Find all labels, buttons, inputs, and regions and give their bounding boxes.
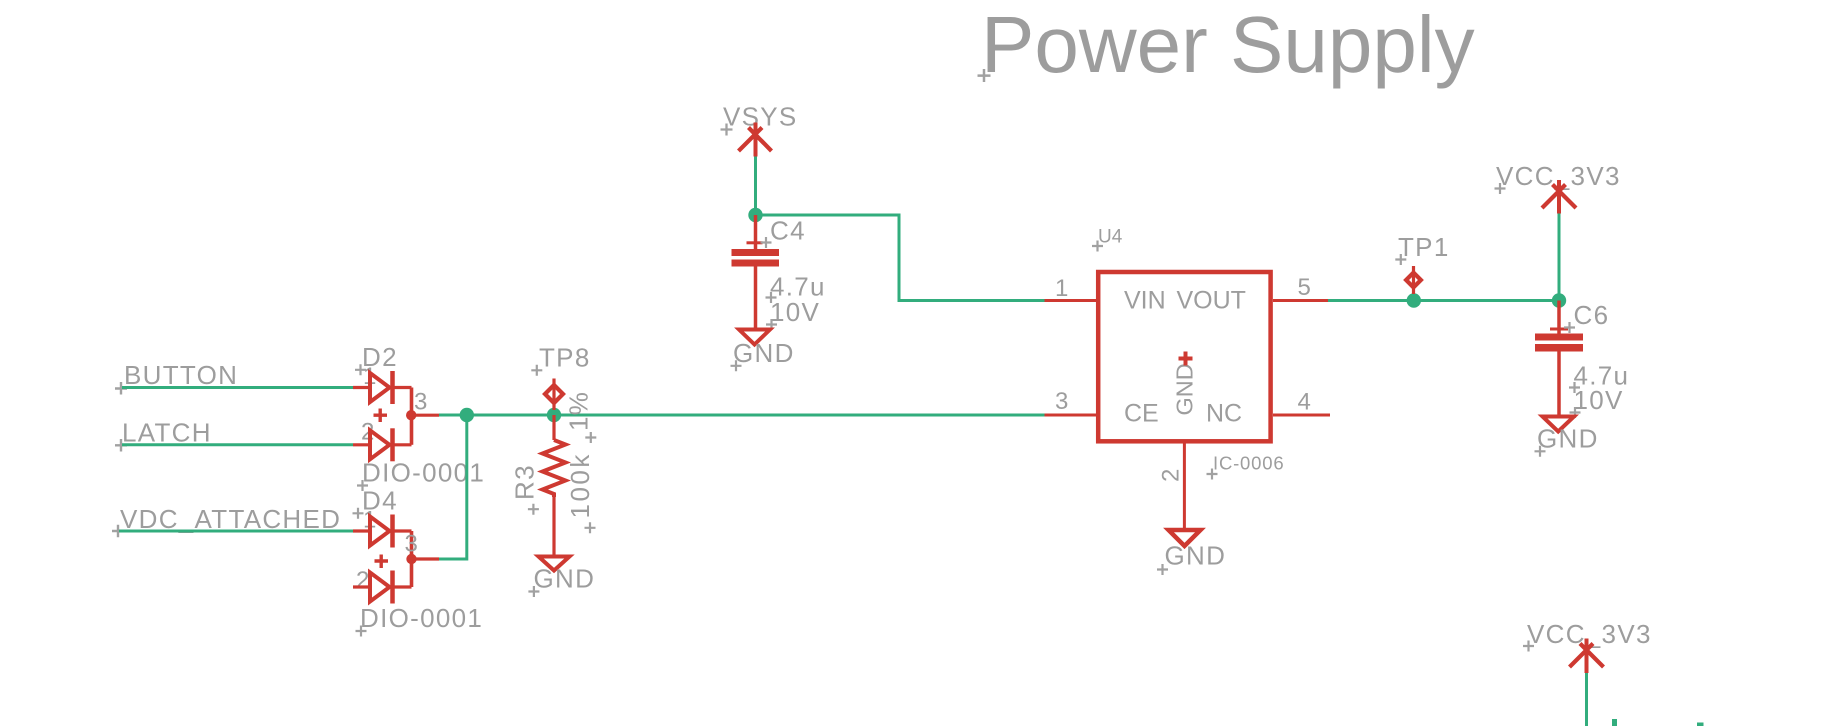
wire VCC_3V3 bottom to edge — [1585, 673, 1588, 726]
test point TP1 — [1395, 232, 1449, 294]
svg-text:Power Supply: Power Supply — [981, 0, 1475, 89]
junction node D4 cathodes — [406, 554, 416, 564]
svg-text:2: 2 — [356, 567, 369, 594]
wire LATCH to D2 pin 2 — [122, 443, 353, 446]
wire fragment at bottom edge (right) — [1697, 723, 1704, 726]
svg-text:C6: C6 — [1574, 300, 1610, 330]
value 4.7u (C4) — [766, 272, 826, 304]
svg-text:CE: CE — [1124, 400, 1159, 428]
value 10V (C4) — [766, 297, 820, 330]
svg-text:1: 1 — [1055, 275, 1068, 302]
label DIO-0001 (D4) — [356, 603, 484, 637]
power symbol VSYS — [721, 102, 798, 157]
svg-text:D4: D4 — [362, 486, 398, 516]
value 4.7u (C6) — [1569, 361, 1629, 394]
svg-text:3: 3 — [1055, 388, 1068, 415]
wire branch down to D4 node — [439, 415, 467, 559]
junction node D2 cathodes — [406, 410, 416, 420]
ground GND below C4 — [731, 330, 795, 372]
wire VCC_3V3 to junction — [1558, 214, 1561, 301]
label C4 — [761, 216, 806, 249]
svg-text:NC: NC — [1206, 400, 1242, 428]
svg-text:10V: 10V — [770, 297, 820, 327]
pin 4 (U4 NC) — [1273, 389, 1330, 416]
power symbol VCC_3V3 (top right) — [1495, 161, 1621, 214]
pin 3 stub (D4) — [405, 531, 440, 560]
label R3 (rotated) — [510, 464, 540, 515]
test point TP8 — [531, 343, 590, 411]
svg-text:100k: 100k — [565, 452, 595, 518]
wire BUTTON to D2 pin 1 — [122, 386, 353, 389]
svg-text:LATCH: LATCH — [122, 418, 212, 448]
diode D4 (dual, common cathode) — [353, 507, 412, 604]
capacitor C6 — [1535, 301, 1583, 416]
svg-text:10V: 10V — [1574, 385, 1624, 415]
capacitor C4 — [732, 215, 780, 328]
value 10V (C6) — [1570, 385, 1624, 418]
wire fragment at bottom edge (left) — [1612, 719, 1617, 726]
svg-text:U4: U4 — [1098, 227, 1123, 248]
IC U4 (regulator) — [1098, 272, 1270, 441]
label C6 — [1564, 300, 1609, 333]
ground GND below R3 — [528, 557, 595, 598]
svg-text:2: 2 — [1158, 469, 1185, 482]
ground GND below C6 — [1535, 417, 1599, 457]
resistor R3 — [543, 415, 566, 557]
value 1% (R3, rotated) — [564, 391, 597, 443]
label D2 — [355, 342, 398, 375]
pin 1 (U4 VIN) — [1045, 275, 1097, 302]
wire U4 pin 5 to VCC_3V3 node — [1328, 299, 1559, 302]
label DIO-0001 (D2) — [357, 458, 485, 492]
svg-text:TP8: TP8 — [539, 343, 591, 373]
svg-text:3: 3 — [405, 531, 418, 558]
svg-text:GND: GND — [733, 338, 795, 368]
svg-text:GND: GND — [1537, 424, 1599, 454]
net label BUTTON — [115, 360, 238, 395]
svg-text:VOUT: VOUT — [1177, 287, 1246, 315]
junction node TP8 — [547, 408, 561, 422]
svg-text:DIO-0001: DIO-0001 — [360, 603, 483, 633]
junction node VSYS/C4 — [748, 208, 762, 222]
svg-text:5: 5 — [1298, 274, 1311, 301]
ground GND below U4 pin 2 — [1157, 530, 1226, 575]
svg-text:C4: C4 — [770, 216, 806, 246]
label IC-0006 — [1207, 453, 1285, 480]
svg-text:IC-0006: IC-0006 — [1213, 453, 1284, 474]
diode D2 (dual, common cathode) — [353, 363, 412, 461]
svg-text:4: 4 — [1298, 389, 1311, 416]
title Power Supply — [978, 0, 1475, 89]
svg-text:D2: D2 — [362, 342, 398, 372]
wire junction to U4 pin 1 — [756, 215, 1045, 301]
pin 3 stub (D2) — [412, 389, 440, 416]
svg-text:GND: GND — [534, 564, 596, 594]
junction node branch to D4 — [460, 408, 474, 422]
svg-text:R3: R3 — [510, 464, 540, 500]
junction node TP1 — [1407, 293, 1421, 307]
label U4 — [1092, 227, 1123, 252]
pin 2 (U4 GND) — [1158, 444, 1185, 530]
net label LATCH — [115, 418, 212, 452]
svg-text:GND: GND — [1165, 541, 1227, 571]
label D4 — [353, 486, 398, 519]
svg-text:1%: 1% — [564, 391, 594, 431]
svg-text:GND: GND — [1172, 363, 1198, 415]
net label VDC_ATTACHED — [112, 504, 341, 537]
svg-text:3: 3 — [414, 389, 427, 416]
pin 3 (U4 CE) — [1045, 388, 1097, 415]
value 100k (rotated) — [565, 452, 596, 533]
power symbol VCC_3V3 (bottom right) — [1523, 619, 1652, 673]
pin 5 (U4 VOUT) — [1273, 274, 1328, 301]
svg-text:TP1: TP1 — [1398, 232, 1450, 262]
wire D2 node to U4 pin 3 — [439, 414, 1045, 417]
svg-text:VIN: VIN — [1124, 287, 1166, 315]
wire VSYS to junction — [754, 157, 757, 216]
pin name GND (rotated) — [1172, 352, 1198, 416]
wire VDC_ATTACHED to D4 pin 1 — [119, 530, 353, 533]
junction node C6 — [1552, 293, 1566, 307]
svg-text:BUTTON: BUTTON — [124, 360, 238, 390]
